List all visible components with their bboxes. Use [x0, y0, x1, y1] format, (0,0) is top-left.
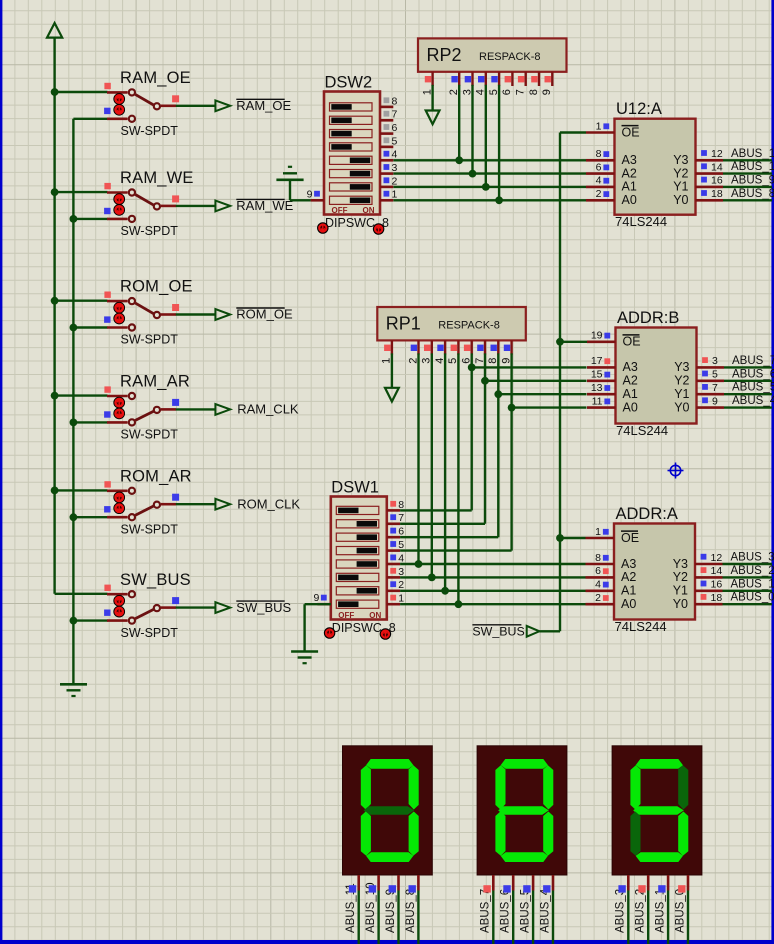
- wire to ADDR:B A0: [512, 406, 587, 408]
- pin 4 of ADDR:A: [586, 589, 615, 592]
- 7-segment display 2: [477, 746, 567, 944]
- segment c: [543, 812, 553, 856]
- junction bus B / SW_BUS bottom throw: [70, 617, 78, 625]
- svg-text:5: 5: [398, 539, 404, 551]
- segment d: [366, 852, 413, 862]
- svg-text:Y1: Y1: [674, 387, 689, 401]
- pin 1 of ROM_OE: [107, 300, 128, 303]
- slide 1 of DSW1 (OFF): [336, 506, 379, 514]
- wire RAM_AR bottom throw: [73, 421, 107, 423]
- wire to ADDR:B A1: [498, 393, 586, 395]
- wire RAM_OE bottom throw: [73, 118, 107, 120]
- junction bus A / RAM_AR top throw: [51, 392, 59, 400]
- pin 8 of RP2: [538, 72, 540, 86]
- junction RP2 pin 3: [469, 170, 477, 178]
- pin 1 of display 1: [357, 875, 360, 891]
- terminal SW_BUS: [215, 600, 291, 615]
- switch RAM_AR (SW-SPDT): [55, 373, 216, 442]
- wire DSW1 pin 3 to ADDR:A A2: [400, 576, 585, 578]
- svg-text:A1: A1: [622, 180, 637, 194]
- svg-text:U12:A: U12:A: [616, 100, 662, 118]
- pin 2 of RAM_OE: [107, 118, 128, 121]
- pin 1 of ADDR:A: [586, 537, 615, 540]
- junction RP2 pin 4: [482, 183, 490, 191]
- wire RP1 pin 2 vertical: [417, 353, 419, 564]
- svg-text:OE: OE: [621, 531, 639, 545]
- svg-text:5: 5: [712, 369, 718, 381]
- wire ABUS_3: [723, 563, 773, 565]
- buffer U12:A (74LS244): [586, 100, 774, 229]
- svg-text:7: 7: [392, 109, 398, 121]
- pin 15 of ADDR:B: [587, 379, 616, 382]
- wire ABUS_10: [723, 172, 772, 174]
- wire DSW1 pin 2 to ADDR:A A1: [400, 590, 585, 592]
- wire ABUS_9: [723, 186, 772, 188]
- segment b: [409, 765, 419, 809]
- svg-text:A2: A2: [623, 374, 638, 388]
- pin 9 of DSW1: [317, 603, 330, 606]
- pin 1 of RP1: [391, 340, 393, 354]
- svg-text:ABUS_9: ABUS_9: [731, 174, 774, 186]
- wire SW_BUS terminal to bus: [539, 630, 560, 632]
- junction RP1 pin 6 / ADDR:B: [468, 364, 476, 372]
- svg-text:6: 6: [398, 526, 404, 538]
- pin 1 of U12:A: [586, 131, 615, 134]
- svg-text:4: 4: [595, 579, 601, 591]
- pin 9 of DSW2: [311, 199, 324, 202]
- wire to ADDR:B A2: [485, 380, 587, 382]
- pin 6 of DSW1: [387, 536, 400, 539]
- svg-text:SW-SPDT: SW-SPDT: [121, 333, 179, 347]
- svg-text:Y3: Y3: [673, 557, 688, 571]
- DIP switch DSW2 (DIPSWC_8): [307, 74, 398, 235]
- pin 3 (pole) of RAM_AR: [161, 408, 176, 411]
- segment d: [636, 852, 683, 862]
- segment g: [498, 806, 549, 814]
- wire ABUS_0: [723, 603, 773, 605]
- svg-text:A2: A2: [621, 570, 636, 584]
- wire RAM_OE pole to terminal: [176, 105, 216, 107]
- DIP switch DSW1 (DIPSWC_8): [313, 479, 404, 640]
- wire DSW2 pin 2 to U12:A A1: [393, 186, 586, 188]
- pin 3 (pole) of ROM_OE: [161, 313, 176, 316]
- pin 7 of ADDR:B: [697, 393, 725, 396]
- wire RP1 pin 5 vertical: [457, 353, 459, 604]
- svg-text:1: 1: [595, 526, 601, 538]
- svg-text:DSW2: DSW2: [325, 74, 373, 92]
- junction RP1 pin 3: [428, 574, 436, 582]
- junction bus A / RAM_OE top throw: [51, 88, 59, 96]
- pin 7 of DSW2: [380, 119, 393, 122]
- slide 6 of DSW2 (ON): [330, 170, 373, 178]
- actuator of DSW1: [324, 628, 334, 638]
- svg-text:11: 11: [592, 395, 603, 407]
- junction RP1 pin 2: [415, 560, 423, 568]
- svg-text:Y3: Y3: [674, 360, 689, 374]
- wire SW_BUS pole to terminal: [176, 606, 216, 608]
- pin 9 of RP1: [510, 340, 512, 354]
- pin 2 of ROM_AR: [107, 516, 128, 519]
- junction SW_BUS / ADDR:B OE: [556, 338, 564, 346]
- wire to ADDR:A OE: [560, 537, 586, 539]
- wire DSW1 pin 1 to ADDR:A A0: [400, 603, 585, 605]
- svg-text:Y0: Y0: [673, 597, 688, 611]
- pin 9 of RP2: [551, 72, 553, 86]
- svg-text:ABUS_6: ABUS_6: [732, 368, 774, 380]
- 7-segment display 1: [343, 746, 433, 944]
- svg-text:14: 14: [711, 565, 723, 577]
- svg-text:A0: A0: [621, 597, 636, 611]
- wire SW_BUS vertical bus: [559, 133, 561, 632]
- svg-text:Y3: Y3: [673, 153, 688, 167]
- pin 7 of DSW1: [387, 522, 400, 525]
- svg-text:6: 6: [501, 89, 513, 95]
- wire ABUS_4: [724, 406, 772, 408]
- pin 8 of DSW1: [387, 509, 400, 512]
- actuator of DSW2: [373, 224, 383, 234]
- svg-text:ABUS_5: ABUS_5: [732, 382, 774, 394]
- pin 6 of DSW2: [380, 132, 393, 135]
- wire ROM_AR bottom throw: [73, 516, 107, 518]
- svg-text:ABUS_3: ABUS_3: [615, 889, 627, 933]
- svg-text:1: 1: [596, 120, 602, 132]
- svg-text:3: 3: [398, 566, 404, 578]
- pin 2 of DSW2: [380, 186, 393, 189]
- pin 12 of U12:A: [696, 159, 724, 162]
- pin 9 of ADDR:B: [697, 406, 725, 409]
- resistor pack RP1 (RESPACK-8): [377, 307, 526, 364]
- pin 8 of ADDR:A: [586, 563, 615, 566]
- wire RAM_WE top throw: [55, 191, 108, 193]
- slide 3 of DSW1 (ON): [336, 533, 379, 541]
- pin 2 of display 3: [647, 875, 650, 891]
- svg-text:8: 8: [596, 148, 602, 160]
- svg-text:ABUS_6: ABUS_6: [500, 889, 512, 933]
- svg-text:6: 6: [392, 122, 398, 134]
- pin 3 (pole) of RAM_OE: [161, 105, 176, 108]
- junction RP1 pin 9 / ADDR:B: [508, 404, 516, 412]
- terminal RAM_WE: [215, 198, 293, 213]
- pin 2 of RAM_AR: [107, 421, 128, 424]
- wire DSW1 pin 4 to ADDR:A A3: [400, 563, 585, 565]
- pin 14 of ADDR:A: [695, 576, 723, 579]
- svg-text:A1: A1: [623, 387, 638, 401]
- svg-text:SW-SPDT: SW-SPDT: [121, 428, 179, 442]
- pin 4 of RP1: [444, 340, 446, 354]
- svg-text:RAM_WE: RAM_WE: [236, 198, 293, 213]
- pin 2 of SW_BUS: [107, 619, 128, 622]
- svg-text:7: 7: [398, 512, 404, 524]
- svg-text:ROM_AR: ROM_AR: [120, 467, 192, 485]
- svg-text:18: 18: [711, 592, 723, 604]
- wire RP2 pin 5 vertical: [498, 85, 500, 201]
- wire RP1 pin 9 vertical: [510, 353, 512, 550]
- slide 5 of DSW2 (ON): [330, 156, 373, 164]
- terminal SW_BUS (right): [472, 625, 539, 639]
- segment f: [495, 765, 505, 809]
- wire ABUS_11: [723, 159, 772, 161]
- svg-text:3: 3: [712, 355, 718, 367]
- svg-text:A3: A3: [623, 360, 638, 374]
- svg-text:18: 18: [711, 188, 723, 200]
- pin 16 of U12:A: [696, 186, 724, 189]
- svg-text:2: 2: [398, 579, 404, 591]
- svg-text:A2: A2: [622, 166, 637, 180]
- svg-text:ABUS_1: ABUS_1: [731, 578, 774, 590]
- switch ROM_OE (SW-SPDT): [55, 278, 216, 347]
- pin 5 of RP2: [498, 72, 500, 86]
- pin 3 of ADDR:B: [697, 366, 725, 369]
- svg-text:RAM_OE: RAM_OE: [236, 98, 291, 113]
- wire ABUS_8: [723, 199, 772, 201]
- pin 1 of DSW2: [380, 199, 393, 202]
- svg-text:7: 7: [515, 89, 527, 95]
- slide 6 of DSW1 (OFF): [336, 573, 379, 581]
- 7-segment display 3: [612, 746, 702, 944]
- slide 4 of DSW1 (ON): [336, 547, 379, 555]
- pin 17 of ADDR:B: [587, 366, 616, 369]
- svg-text:SW-SPDT: SW-SPDT: [121, 224, 179, 238]
- svg-text:OFF: OFF: [332, 206, 348, 215]
- wire to U12:A OE: [560, 131, 586, 133]
- svg-text:ABUS_11: ABUS_11: [731, 148, 774, 160]
- wire ABUS_1: [723, 590, 773, 592]
- svg-text:ROM_CLK: ROM_CLK: [237, 496, 300, 511]
- wire DSW1 pin 7 horizontal: [400, 523, 485, 525]
- ground (DSW1 pin 9): [291, 604, 331, 663]
- wire to ADDR:B A3: [472, 366, 587, 368]
- slide 2 of DSW1 (ON): [336, 520, 379, 528]
- wire RAM_WE pole to terminal: [176, 205, 216, 207]
- svg-text:74LS244: 74LS244: [615, 214, 667, 229]
- wire RAM_WE bottom throw: [73, 218, 107, 220]
- wire RP1 pin 6 vertical: [471, 353, 473, 510]
- svg-text:RP2: RP2: [427, 45, 462, 65]
- svg-text:74LS244: 74LS244: [616, 423, 668, 438]
- wire SW_BUS bottom throw: [73, 619, 107, 621]
- slide 7 of DSW1 (ON): [336, 587, 379, 595]
- terminal RAM_OE: [215, 98, 291, 113]
- pin 12 of ADDR:A: [695, 563, 723, 566]
- svg-text:Y2: Y2: [674, 374, 689, 388]
- svg-text:ABUS_4: ABUS_4: [732, 395, 774, 407]
- pin 3 (pole) of SW_BUS: [161, 606, 176, 609]
- wire bus B vertical (switch bottom throws to ground): [72, 119, 74, 684]
- segment g: [633, 806, 684, 814]
- pin 16 of ADDR:A: [695, 589, 723, 592]
- svg-text:4: 4: [398, 552, 404, 564]
- svg-text:8: 8: [392, 95, 398, 107]
- svg-text:Y0: Y0: [674, 400, 689, 414]
- pin 3 (pole) of RAM_WE: [161, 205, 176, 208]
- wire ABUS_6: [724, 380, 772, 382]
- segment f: [630, 765, 640, 809]
- slide 8 of DSW2 (ON): [330, 196, 373, 204]
- junction bus B / RAM_AR bottom throw: [70, 419, 78, 427]
- pin 2 of ROM_OE: [107, 326, 128, 329]
- pin 2 of RP2: [458, 72, 460, 86]
- svg-text:ABUS_8: ABUS_8: [731, 188, 774, 200]
- svg-text:6: 6: [595, 565, 601, 577]
- wire RAM_OE top throw: [55, 91, 108, 93]
- switch SW_BUS (SW-SPDT): [55, 571, 216, 640]
- svg-text:ON: ON: [369, 611, 381, 620]
- svg-text:17: 17: [591, 355, 603, 367]
- junction bus A / RAM_WE top throw: [51, 188, 59, 196]
- wire ROM_OE pole to terminal: [176, 313, 216, 315]
- pin 5 of ADDR:B: [697, 379, 725, 382]
- origin marker: [668, 463, 684, 479]
- segment a: [636, 759, 683, 769]
- pin 8 of RP1: [497, 340, 499, 354]
- wire DSW2 pin 3 to U12:A A2: [393, 172, 586, 174]
- svg-text:ROM_OE: ROM_OE: [236, 307, 293, 322]
- segment e: [630, 812, 640, 856]
- svg-text:RESPACK-8: RESPACK-8: [438, 320, 500, 332]
- pin 4 of DSW1: [387, 563, 400, 566]
- pin 3 of display 2: [532, 875, 535, 891]
- wire RAM_AR pole to terminal: [176, 408, 216, 410]
- segment b: [543, 765, 553, 809]
- svg-text:12: 12: [711, 148, 723, 160]
- pin 3 of DSW2: [380, 172, 393, 175]
- pin 3 of display 1: [397, 875, 400, 891]
- svg-text:8: 8: [398, 499, 404, 511]
- pin 5 of DSW2: [380, 146, 393, 149]
- svg-text:OE: OE: [623, 335, 641, 349]
- wire RP1 pin 7 vertical: [484, 353, 486, 523]
- svg-text:SW-SPDT: SW-SPDT: [121, 124, 179, 138]
- pin 1 of SW_BUS: [107, 593, 128, 596]
- svg-text:2: 2: [595, 592, 601, 604]
- svg-text:ABUS_5: ABUS_5: [520, 889, 532, 933]
- svg-text:5: 5: [392, 135, 398, 147]
- svg-text:9: 9: [541, 89, 553, 95]
- svg-text:A0: A0: [623, 400, 638, 414]
- resistor pack RP2 (RESPACK-8): [418, 38, 567, 95]
- junction bus B / ROM_OE bottom throw: [70, 324, 78, 332]
- svg-text:ABUS_9: ABUS_9: [385, 889, 397, 933]
- svg-text:RESPACK-8: RESPACK-8: [479, 51, 541, 63]
- svg-text:ABUS_1: ABUS_1: [655, 889, 667, 933]
- svg-text:19: 19: [591, 330, 603, 342]
- wire ABUS_2: [723, 576, 773, 578]
- svg-text:8: 8: [595, 552, 601, 564]
- svg-text:ON: ON: [363, 206, 375, 215]
- svg-text:ROM_OE: ROM_OE: [120, 278, 193, 296]
- svg-text:15: 15: [591, 369, 603, 381]
- svg-text:RAM_WE: RAM_WE: [120, 169, 194, 187]
- segment c: [678, 812, 688, 856]
- slide 3 of DSW2 (OFF): [330, 130, 373, 138]
- svg-text:6: 6: [596, 161, 602, 173]
- pin 2 of display 1: [377, 875, 380, 891]
- svg-text:Y2: Y2: [673, 570, 688, 584]
- pin 6 of RP2: [511, 72, 513, 86]
- terminal RAM_CLK: [215, 402, 299, 417]
- svg-text:74LS244: 74LS244: [615, 619, 667, 634]
- svg-text:RAM_AR: RAM_AR: [120, 373, 190, 391]
- svg-text:9: 9: [313, 592, 319, 604]
- pin 1 of DSW1: [387, 603, 400, 606]
- svg-text:16: 16: [711, 579, 723, 591]
- buffer ADDR:B (74LS244): [587, 309, 774, 438]
- segment b: [678, 765, 688, 809]
- slide 8 of DSW1 (OFF): [336, 600, 379, 608]
- ground (bottom left): [60, 684, 87, 696]
- wire DSW1 pin 8 horizontal: [400, 509, 472, 511]
- svg-text:4: 4: [596, 175, 602, 187]
- pin 8 of DSW2: [380, 106, 393, 109]
- svg-text:ADDR:B: ADDR:B: [617, 309, 679, 327]
- wire DSW1 pin 6 horizontal: [400, 536, 498, 538]
- svg-text:ABUS_8: ABUS_8: [405, 889, 417, 933]
- svg-text:ABUS_4: ABUS_4: [539, 888, 551, 933]
- junction bus A / ROM_AR top throw: [51, 487, 59, 495]
- pin 5 of DSW1: [387, 549, 400, 552]
- svg-text:Y1: Y1: [673, 584, 688, 598]
- junction SW_BUS / ADDR:A OE: [556, 534, 564, 542]
- pin 4 of U12:A: [586, 186, 615, 189]
- slide 7 of DSW2 (ON): [330, 183, 373, 191]
- segment a: [501, 759, 548, 769]
- actuator of DSW2: [318, 223, 328, 233]
- svg-text:1: 1: [398, 593, 404, 605]
- pin 3 of RP1: [431, 340, 433, 354]
- svg-text:ABUS_0: ABUS_0: [674, 889, 686, 933]
- svg-text:RP1: RP1: [386, 314, 421, 334]
- terminal ROM_CLK: [215, 496, 300, 511]
- svg-text:A3: A3: [622, 153, 637, 167]
- svg-text:RAM_OE: RAM_OE: [120, 69, 191, 87]
- junction RP2 pin 2: [455, 156, 463, 164]
- pin 4 of display 3: [687, 875, 690, 891]
- svg-text:A0: A0: [622, 193, 637, 207]
- wire RP2 pin 2 vertical: [458, 85, 460, 161]
- wire ABUS_5: [724, 393, 772, 395]
- slide 4 of DSW2 (OFF): [330, 143, 373, 151]
- slide 5 of DSW1 (ON): [336, 560, 379, 568]
- segment g: [364, 806, 415, 814]
- junction RP1 pin 5: [455, 600, 463, 608]
- pin 3 of RP2: [471, 72, 473, 86]
- svg-text:7: 7: [712, 382, 718, 394]
- terminal ROM_OE: [215, 307, 293, 322]
- svg-text:SW-SPDT: SW-SPDT: [121, 626, 179, 640]
- pin 1 of RAM_WE: [107, 191, 128, 194]
- pin 2 of ADDR:A: [586, 603, 615, 606]
- pin 8 of U12:A: [586, 159, 615, 162]
- pin 5 of RP1: [457, 340, 459, 354]
- junction bus B / ROM_AR bottom throw: [70, 513, 78, 521]
- svg-text:Y0: Y0: [673, 193, 688, 207]
- wire ROM_AR pole to terminal: [176, 503, 216, 505]
- wire ROM_OE top throw: [55, 300, 108, 302]
- svg-text:ABUS_7: ABUS_7: [732, 355, 774, 367]
- pin 2 of U12:A: [586, 199, 615, 202]
- wire SW_BUS top throw: [55, 593, 108, 595]
- svg-text:Y1: Y1: [673, 180, 688, 194]
- svg-text:OFF: OFF: [338, 611, 354, 620]
- pin 1 of RP2: [431, 72, 433, 86]
- svg-text:4: 4: [392, 149, 398, 161]
- svg-text:16: 16: [711, 175, 723, 187]
- pin 4 of DSW2: [380, 159, 393, 162]
- pin 6 of RP1: [471, 340, 473, 354]
- svg-text:OE: OE: [622, 125, 640, 139]
- svg-text:ABUS_3: ABUS_3: [731, 552, 774, 564]
- svg-text:ADDR:A: ADDR:A: [616, 505, 678, 523]
